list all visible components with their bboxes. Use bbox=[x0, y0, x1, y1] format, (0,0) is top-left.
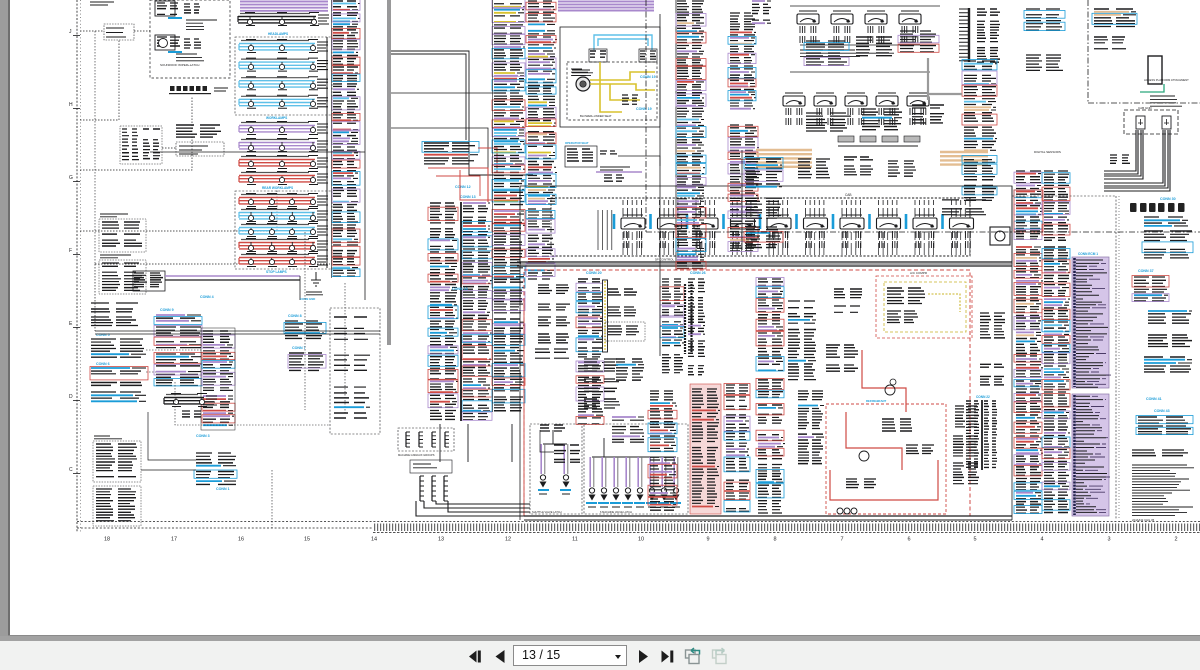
sensor tree rows 1 bbox=[744, 158, 783, 187]
svg-text:CONN 19: CONN 19 bbox=[640, 75, 656, 79]
cab gnd stud left bbox=[1136, 116, 1145, 129]
trunk wire x365 bbox=[364, 0, 366, 300]
relay K3 5P bbox=[694, 218, 718, 229]
ac compr yellow wire bbox=[928, 294, 960, 312]
seat labels bbox=[600, 167, 630, 170]
harness dotted run D bbox=[80, 96, 192, 170]
toolbar separator gray band bbox=[0, 636, 1200, 641]
5P control inner box bbox=[551, 198, 970, 256]
sensor tree rows 2 bbox=[746, 198, 782, 218]
page bottom edge line bbox=[8, 635, 1200, 637]
sensor tree rows 3 bbox=[744, 227, 783, 248]
blower under seat enclosure bbox=[567, 62, 657, 120]
resistor module row bbox=[838, 136, 854, 142]
harness dotted run A bbox=[80, 30, 104, 32]
cond rows 2 bbox=[834, 306, 860, 312]
svg-text:3: 3 bbox=[1107, 537, 1110, 543]
deutsch border 2 bbox=[99, 260, 146, 294]
relay K1 5P bbox=[621, 218, 645, 229]
5P right cluster bbox=[942, 200, 986, 215]
cab relay A3 bbox=[865, 14, 887, 24]
mid cluster rows 1 bbox=[584, 359, 618, 371]
svg-text:5P CONTROL: 5P CONTROL bbox=[655, 258, 674, 262]
svg-text:D: D bbox=[69, 394, 73, 400]
relay bus2 bbox=[800, 44, 920, 46]
ac sensor rows 1 bbox=[538, 285, 569, 293]
svg-text:17: 17 bbox=[171, 537, 177, 543]
detail pins 4 bbox=[96, 489, 136, 521]
trunk wire x390 bbox=[389, 0, 391, 345]
run to cab column bbox=[146, 349, 203, 351]
cab relay B1 bbox=[783, 96, 805, 106]
compressor clutch symbols bbox=[885, 385, 895, 395]
red wire loop 2 bbox=[428, 168, 488, 202]
svg-text:12: 12 bbox=[505, 537, 511, 543]
ac detail rows 2 bbox=[906, 445, 934, 454]
gnd comb 3 bbox=[431, 432, 433, 447]
right misc 4 bbox=[1136, 416, 1193, 435]
CONN 26 column bbox=[660, 279, 684, 373]
cab column C2 lower bbox=[728, 125, 759, 251]
access platform dash-dot enclosure bbox=[646, 0, 1200, 232]
trunk L y54 bbox=[391, 54, 466, 140]
blue hvac wire 2 bbox=[594, 35, 652, 50]
svg-text:CAB: CAB bbox=[845, 193, 852, 197]
detail border 3 bbox=[93, 441, 141, 482]
relay K8 5P bbox=[877, 218, 901, 229]
dotted trunk 4 bbox=[344, 283, 346, 415]
cluster m1 bbox=[798, 159, 830, 178]
svg-text:CONN 30: CONN 30 bbox=[1160, 197, 1176, 201]
keypad border bbox=[120, 126, 162, 164]
column x528 mid extension bbox=[526, 209, 555, 279]
pressure transducer bbox=[890, 379, 896, 385]
bottom bus 1 bbox=[524, 515, 1012, 517]
svg-text:WORKLAMPS: WORKLAMPS bbox=[266, 116, 287, 120]
svg-text:CONN ECM 1: CONN ECM 1 bbox=[1078, 252, 1098, 256]
cab relay A4 bbox=[899, 14, 921, 24]
lavender seat wire bbox=[596, 171, 642, 173]
relay K7 5P bbox=[840, 218, 864, 229]
relay feed bus bbox=[790, 5, 940, 7]
yellow wire 2 bbox=[590, 84, 655, 90]
yellow wire 3 bbox=[610, 84, 640, 100]
chassis gnd run 1 bbox=[424, 501, 530, 508]
right dash border top bbox=[1012, 195, 1116, 197]
wire to relay module bbox=[162, 147, 176, 149]
seat module rows bbox=[567, 149, 593, 161]
detail pins 3 bbox=[96, 444, 137, 477]
svg-text:CONN 13: CONN 13 bbox=[460, 195, 476, 199]
deutsch pins 1 bbox=[102, 222, 142, 246]
sensor rows u6 bbox=[912, 105, 944, 123]
impl solenoid 1 bbox=[589, 488, 594, 493]
shuttle valve enclosure bbox=[530, 424, 582, 514]
left trunk solid 2 bbox=[95, 333, 380, 335]
wiper motor M2 block bbox=[157, 37, 180, 46]
fuse strip tag bbox=[214, 88, 228, 91]
CONN 6 rows bbox=[90, 367, 148, 386]
5P relay bottom dashed drops bbox=[623, 232, 970, 255]
hvac relay B frame bbox=[639, 49, 657, 62]
press switch rows 2 bbox=[608, 307, 636, 316]
AC COMPR boxes bbox=[876, 276, 972, 338]
right mid cluster 3 bbox=[955, 406, 978, 427]
CONN 26 twin ladder spines bbox=[684, 284, 686, 354]
ac region left edge bbox=[519, 264, 521, 520]
switch bank mini box bbox=[104, 24, 134, 40]
harness dotted run F bbox=[95, 263, 330, 265]
tr rows 1 bbox=[1024, 9, 1065, 31]
mid cluster rows 3 bbox=[584, 399, 620, 408]
ac region right edge bbox=[1011, 186, 1013, 520]
col x758 rows bbox=[756, 278, 784, 398]
vertical run x148 bbox=[148, 412, 196, 460]
svg-text:11: 11 bbox=[572, 537, 578, 543]
press switch rows bbox=[608, 289, 637, 295]
svg-text:CONN 20: CONN 20 bbox=[586, 271, 602, 275]
harness dotted run E bbox=[80, 230, 277, 232]
page number box bbox=[513, 645, 627, 666]
aux cluster bbox=[182, 411, 201, 417]
chassis gnd run 2 bbox=[436, 501, 530, 504]
cab column C2 upper bbox=[728, 13, 756, 109]
roof purple feed wires bbox=[240, 2, 328, 11]
svg-text:7: 7 bbox=[840, 537, 843, 543]
right col RC1b bbox=[1042, 171, 1070, 240]
tr rows 2 bbox=[1026, 55, 1063, 70]
svg-text:CONN 26: CONN 26 bbox=[690, 271, 706, 275]
main column x494 bbox=[492, 0, 525, 205]
svg-text:DIGITAL SENSORS: DIGITAL SENSORS bbox=[1034, 150, 1061, 154]
relay module rows bbox=[179, 146, 208, 154]
machine valve enclosure bbox=[584, 424, 688, 514]
door actuator symbol bbox=[1148, 56, 1162, 84]
shuttle solenoid 2 bbox=[563, 475, 568, 480]
twin column right bbox=[462, 203, 492, 420]
wiper connector pins top bbox=[184, 4, 200, 13]
svg-text:10: 10 bbox=[638, 537, 644, 543]
cab bus line 2 bbox=[517, 265, 1012, 267]
fan rows 1 bbox=[826, 345, 858, 357]
rear lamp rows 3 red bbox=[239, 239, 328, 267]
right mid cluster 1 bbox=[980, 313, 1005, 338]
harness dotted run B bbox=[134, 30, 150, 32]
CONN22 col right bbox=[984, 401, 997, 467]
harness dotted vertical x95 bbox=[94, 31, 96, 264]
5P cyan vertical labels bbox=[614, 214, 943, 229]
svg-text:ACCESS PLATFORM ATTACHMENT: ACCESS PLATFORM ATTACHMENT bbox=[1144, 78, 1189, 82]
sensor rows u3 bbox=[898, 31, 939, 52]
svg-text:CONN 1: CONN 1 bbox=[216, 487, 230, 491]
ground symbol lamp block bbox=[311, 272, 321, 286]
svg-text:C: C bbox=[69, 467, 73, 473]
svg-text:4: 4 bbox=[1040, 537, 1043, 543]
deutsch hdr 2 bbox=[100, 255, 131, 258]
gnd comb 2 bbox=[418, 432, 420, 447]
empty slot ticks bbox=[598, 210, 612, 250]
bottom run x141 bbox=[141, 469, 196, 471]
bulkhead rows bbox=[134, 273, 163, 287]
pink fuse band bbox=[690, 384, 721, 514]
col x652 rows bbox=[648, 391, 677, 510]
relay row labels bbox=[800, 50, 894, 56]
chassis comb 3 bbox=[443, 476, 445, 501]
relay K4 5P bbox=[731, 218, 755, 229]
mid cluster x616 bbox=[616, 359, 644, 380]
bulkhead frame bbox=[133, 271, 165, 291]
CONN 5 rows bbox=[91, 339, 146, 357]
seat module frame bbox=[565, 146, 597, 167]
ac detail red box bbox=[826, 404, 946, 514]
tan harness rows bbox=[756, 150, 988, 167]
CONN 30 rows bbox=[1144, 217, 1188, 226]
next page button bbox=[639, 650, 648, 663]
svg-text:CONN 41: CONN 41 bbox=[1146, 397, 1162, 401]
svg-text:CONN GND: CONN GND bbox=[300, 297, 315, 301]
cab relay B3 bbox=[845, 96, 867, 106]
cab gnd stud right bbox=[1162, 116, 1171, 129]
svg-text:CONN 19: CONN 19 bbox=[636, 107, 652, 111]
ac sensor rows 3 bbox=[538, 317, 570, 326]
ac detail rows 3 bbox=[846, 479, 876, 488]
impl solenoid 5 bbox=[637, 488, 642, 493]
CONN 9 rows a bbox=[154, 315, 202, 348]
svg-text:CONN 7: CONN 7 bbox=[292, 346, 306, 350]
right col RC2a bbox=[1014, 247, 1043, 377]
hvac relay A bbox=[590, 51, 606, 57]
right mid cluster 5 bbox=[953, 463, 979, 484]
gnd comb 4 bbox=[444, 432, 446, 447]
machine feed line bbox=[592, 456, 676, 458]
svg-text:HEADLAMPS: HEADLAMPS bbox=[268, 32, 288, 36]
previous page button bbox=[496, 650, 505, 663]
CONN 8 rows bbox=[284, 321, 326, 338]
svg-text:REAR WORKLAMPS: REAR WORKLAMPS bbox=[262, 186, 293, 190]
seat wire bbox=[618, 156, 660, 166]
CONN 37 rows bbox=[1132, 276, 1169, 302]
red trunk top bbox=[460, 170, 520, 200]
5P control top pin ticks bbox=[623, 200, 970, 217]
trunk L y51 bbox=[391, 51, 533, 175]
blue hvac wire 1 bbox=[598, 39, 648, 46]
CONN 6b rows bbox=[91, 392, 146, 401]
relay K6 5P bbox=[804, 218, 828, 229]
svg-text:15: 15 bbox=[304, 537, 310, 543]
twin column spine bbox=[460, 202, 462, 421]
bottom frame ruler band bbox=[77, 521, 1200, 523]
trunk x676 bbox=[675, 0, 677, 270]
shuttle solenoid 1 bbox=[540, 475, 545, 480]
impl solenoid 2 bbox=[601, 488, 606, 493]
yellow wire 4 bbox=[600, 62, 622, 112]
svg-text:CONN 8: CONN 8 bbox=[288, 314, 302, 318]
purple top feed center bbox=[558, 2, 654, 11]
svg-text:5: 5 bbox=[973, 537, 976, 543]
right mid cluster 2 bbox=[980, 364, 1004, 385]
deutsch border 1 bbox=[99, 219, 146, 252]
gray wire v bbox=[927, 58, 929, 100]
cond rows 1 bbox=[834, 289, 862, 298]
wiper wire labels bbox=[186, 20, 217, 30]
svg-text:STOP LAMPS: STOP LAMPS bbox=[266, 270, 287, 274]
red wire loop 3 bbox=[436, 176, 480, 196]
relay bus3 bbox=[790, 71, 930, 73]
cab gnd block rows bbox=[1110, 155, 1130, 163]
cab box left edge bbox=[519, 186, 521, 264]
right misc 3 bbox=[1144, 357, 1192, 372]
fuse ladder spine bbox=[968, 8, 970, 62]
gray wire h bbox=[928, 93, 962, 95]
svg-text:2: 2 bbox=[1174, 537, 1177, 543]
svg-text:REFRIGERANT: REFRIGERANT bbox=[866, 399, 886, 403]
cab relay A2 bbox=[831, 14, 853, 24]
chassis gnd run 4 bbox=[416, 501, 530, 516]
breaker row 2 bbox=[91, 317, 138, 326]
sensor tree spine bbox=[741, 150, 743, 250]
cluster m2 bbox=[844, 157, 873, 175]
sensor rows u5 bbox=[862, 109, 902, 130]
digital sensor col 2 bbox=[962, 156, 997, 201]
ECM lavender band bbox=[1072, 257, 1109, 388]
right col RC2b bbox=[1042, 247, 1070, 377]
worklamp red rows bbox=[239, 156, 328, 185]
mid cluster rows 2 bbox=[584, 379, 619, 391]
chassis gnd run 3 bbox=[448, 501, 530, 512]
sparse rows in box bbox=[334, 317, 370, 418]
svg-text:CONN 37: CONN 37 bbox=[1138, 269, 1154, 273]
headlamps enclosure bbox=[235, 37, 332, 115]
cab relay B2 bbox=[814, 96, 836, 106]
ECM band spine bbox=[1073, 258, 1076, 387]
machine feed riser bbox=[603, 438, 605, 457]
shuttle feed riser bbox=[552, 430, 554, 444]
keypad rows right bbox=[143, 129, 160, 159]
right dash border v2 bbox=[1118, 196, 1120, 520]
hvac relay A frame bbox=[589, 49, 607, 62]
column x333 left frame bbox=[331, 0, 333, 278]
right col RC1a bbox=[1014, 171, 1042, 240]
deutsch pins 2 bbox=[102, 263, 142, 290]
trunk wire y152 bbox=[150, 151, 365, 153]
CAB outer enclosure bbox=[520, 186, 1012, 264]
svg-text:6: 6 bbox=[907, 537, 910, 543]
CONN 7 rows bbox=[288, 353, 326, 370]
svg-text:G: G bbox=[69, 175, 73, 181]
trunk L y128 bbox=[391, 128, 488, 200]
cluster m3 bbox=[888, 161, 916, 176]
door switch block bbox=[176, 125, 221, 137]
red route 3 bbox=[830, 460, 938, 500]
svg-text:OPERATOR SEAT: OPERATOR SEAT bbox=[565, 141, 589, 145]
blower circuit outer box bbox=[560, 27, 660, 127]
chassis gnd frame bbox=[410, 460, 452, 473]
ac compr rows 2 bbox=[887, 311, 918, 323]
column x528 bbox=[526, 1, 557, 205]
CONN 30 rows b bbox=[1142, 231, 1193, 258]
relay module border bbox=[176, 142, 224, 156]
svg-text:SHUTTLE VALVE LATCH: SHUTTLE VALVE LATCH bbox=[532, 510, 562, 514]
headlamp rows blue bbox=[239, 40, 328, 109]
sensor rows u2 bbox=[856, 37, 892, 56]
rear lamp rows 2 blue bbox=[239, 209, 328, 237]
dotted trunk 2 bbox=[175, 382, 330, 425]
relay K5 5P bbox=[767, 218, 791, 229]
cyan wiper label bbox=[168, 17, 182, 19]
column x494 spine bbox=[492, 0, 494, 412]
switch bank rows bbox=[106, 28, 126, 37]
col x798 lower rows bbox=[798, 391, 824, 464]
detail border 4 bbox=[93, 486, 141, 526]
ac sensor rows 4 bbox=[538, 334, 569, 343]
svg-text:6 MACHINE VALVE LATCH: 6 MACHINE VALVE LATCH bbox=[600, 510, 632, 514]
red route 2 bbox=[846, 412, 902, 470]
trunk wire x387 bbox=[387, 0, 389, 345]
breaker row 1 bbox=[91, 303, 138, 312]
chassis gnd rows bbox=[413, 464, 437, 468]
wiper motor M1 block bbox=[157, 3, 178, 14]
first page button bbox=[469, 651, 481, 663]
gnd comb 1 bbox=[405, 432, 407, 447]
ECM band pin ticks bbox=[1076, 260, 1109, 512]
keypad rows left bbox=[122, 129, 139, 160]
svg-text:CONN 4: CONN 4 bbox=[200, 295, 214, 299]
svg-text:F: F bbox=[69, 248, 72, 254]
svg-text:A/C COMPR: A/C COMPR bbox=[910, 271, 928, 275]
svg-text:CONN 43: CONN 43 bbox=[1154, 409, 1170, 413]
ac sensor rows 5 bbox=[535, 349, 569, 358]
seat small rows bbox=[604, 175, 624, 181]
chassis comb 1 bbox=[419, 476, 421, 501]
lower-left sparse box bbox=[330, 308, 380, 434]
harness dotted run E2 bbox=[276, 190, 278, 231]
blower specks bbox=[571, 69, 591, 75]
cab relay A1 bbox=[797, 14, 819, 24]
bulkhead purple bundle bbox=[165, 275, 300, 277]
cab gnd nested bends left bbox=[1104, 130, 1136, 171]
blower motor labels bbox=[572, 70, 593, 76]
trunk wire y93 bbox=[391, 92, 494, 94]
door actuator wire bbox=[1140, 84, 1164, 92]
impl solenoid 8 bbox=[673, 488, 678, 493]
drawing frame left dotted border bbox=[76, 0, 78, 532]
main column x333 bbox=[332, 0, 360, 277]
wiper motor symbol bbox=[159, 39, 168, 48]
thermostat rows bbox=[608, 326, 639, 335]
cab column frame bbox=[201, 328, 235, 430]
seat pins bbox=[600, 151, 617, 154]
CONN 20 column bbox=[576, 279, 605, 424]
svg-text:CONN 12: CONN 12 bbox=[455, 185, 471, 189]
yellow wire 1 bbox=[590, 72, 655, 80]
cab relay B4 bbox=[876, 96, 898, 106]
bottom bus 2 bbox=[524, 519, 1012, 521]
svg-text:224AZ42 CHG 05: 224AZ42 CHG 05 bbox=[1132, 518, 1155, 522]
relay K2 5P bbox=[658, 218, 682, 229]
CAB GND dashed enclosure bbox=[1124, 110, 1178, 134]
top edge marks bbox=[90, 2, 114, 5]
CONN 20 ladder strip with yellow spine bbox=[603, 280, 608, 352]
RC1 red frame bbox=[1014, 190, 1043, 232]
dotted drop x272 bbox=[271, 470, 273, 528]
machine gnd box bbox=[398, 428, 454, 451]
svg-text:16: 16 bbox=[238, 537, 244, 543]
bottom col x726 bbox=[724, 384, 750, 512]
last page button bbox=[662, 651, 674, 663]
svg-text:13: 13 bbox=[438, 537, 444, 543]
col x758 rows b bbox=[756, 404, 785, 514]
relay K9 5P bbox=[913, 218, 937, 229]
